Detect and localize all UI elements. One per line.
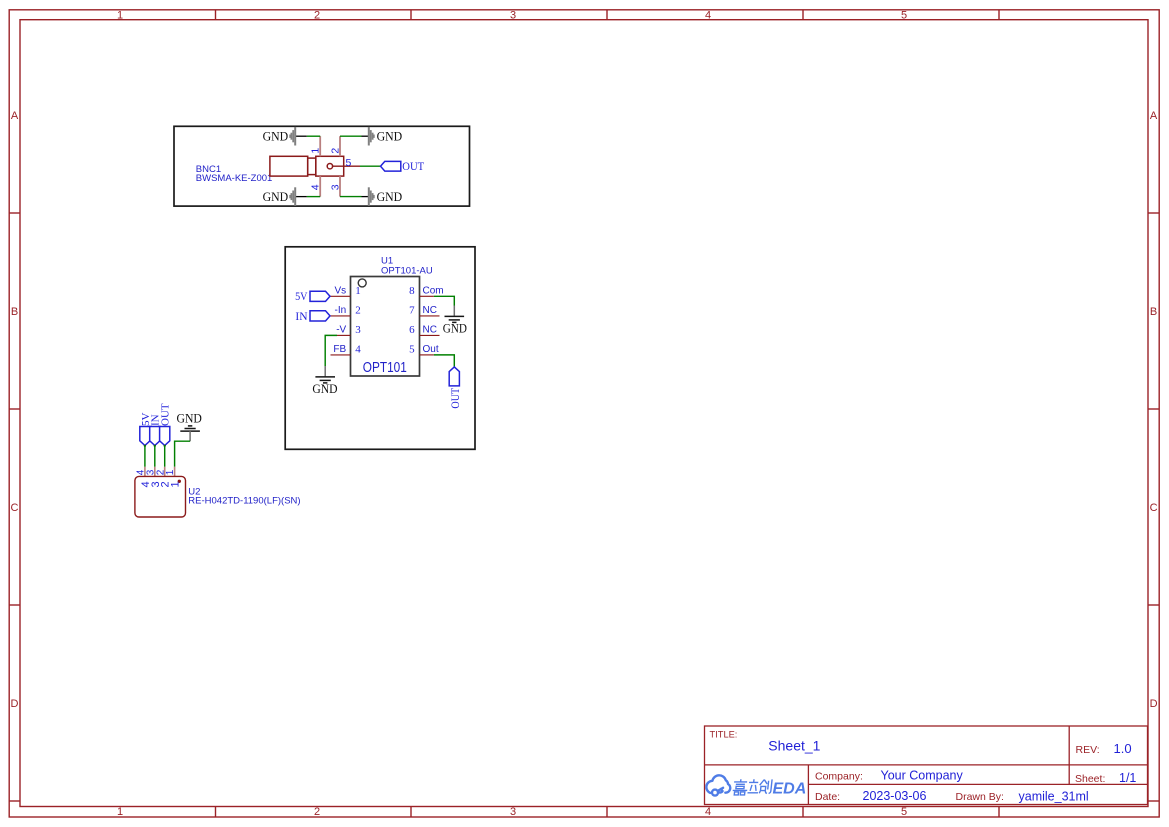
svg-text:EDA: EDA — [773, 780, 807, 797]
svg-text:Your Company: Your Company — [881, 768, 964, 782]
svg-text:Company:: Company: — [815, 771, 863, 783]
svg-text:5: 5 — [346, 157, 352, 169]
svg-text:OPT101: OPT101 — [363, 360, 407, 376]
svg-text:6: 6 — [409, 324, 415, 336]
svg-text:C: C — [1150, 502, 1158, 514]
svg-text:3: 3 — [510, 806, 516, 818]
svg-text:3: 3 — [510, 10, 516, 22]
svg-text:2: 2 — [355, 304, 361, 316]
svg-text:-V: -V — [336, 325, 346, 336]
svg-text:1: 1 — [165, 469, 176, 475]
svg-text:3: 3 — [329, 184, 341, 190]
svg-text:OUT: OUT — [450, 388, 462, 409]
svg-text:4: 4 — [310, 184, 322, 190]
svg-text:GND: GND — [443, 321, 467, 336]
svg-text:4: 4 — [705, 806, 711, 818]
svg-text:7: 7 — [409, 304, 415, 316]
svg-text:NC: NC — [423, 305, 437, 316]
svg-text:1/1: 1/1 — [1119, 771, 1136, 785]
svg-text:GND: GND — [263, 129, 289, 144]
svg-text:5: 5 — [409, 343, 415, 355]
svg-text:GND: GND — [312, 381, 337, 396]
svg-text:5: 5 — [901, 806, 907, 818]
svg-text:B: B — [1150, 306, 1157, 318]
svg-text:1.0: 1.0 — [1114, 741, 1132, 756]
svg-text:3: 3 — [355, 324, 361, 336]
svg-text:C: C — [11, 502, 19, 514]
svg-text:5: 5 — [901, 10, 907, 22]
svg-text:Date:: Date: — [815, 791, 840, 803]
svg-text:Sheet:: Sheet: — [1075, 773, 1105, 785]
svg-text:OPT101-AU: OPT101-AU — [381, 265, 433, 276]
svg-text:Sheet_1: Sheet_1 — [768, 737, 820, 753]
svg-text:OUT: OUT — [160, 403, 172, 426]
svg-text:2: 2 — [329, 148, 341, 154]
svg-text:5V: 5V — [295, 291, 308, 303]
svg-text:OUT: OUT — [402, 161, 424, 173]
svg-text:RE-H042TD-1190(LF)(SN): RE-H042TD-1190(LF)(SN) — [188, 496, 300, 507]
svg-text:A: A — [11, 110, 19, 122]
svg-text:1: 1 — [355, 285, 361, 297]
svg-text:B: B — [11, 306, 18, 318]
svg-text:1: 1 — [310, 148, 322, 154]
svg-text:GND: GND — [377, 129, 403, 144]
svg-text:2: 2 — [314, 806, 320, 818]
svg-text:NC: NC — [423, 325, 437, 336]
svg-text:Out: Out — [423, 344, 439, 355]
svg-text:yamile_31ml: yamile_31ml — [1019, 790, 1089, 804]
svg-text:4: 4 — [355, 343, 361, 355]
svg-text:Com: Com — [423, 285, 444, 296]
svg-text:TITLE:: TITLE: — [710, 730, 738, 740]
svg-text:2: 2 — [314, 10, 320, 22]
svg-text:BWSMA-KE-Z001: BWSMA-KE-Z001 — [196, 173, 273, 184]
svg-text:GND: GND — [377, 189, 403, 204]
svg-text:D: D — [1150, 698, 1158, 710]
svg-text:IN: IN — [295, 311, 308, 323]
svg-text:D: D — [11, 698, 19, 710]
svg-text:REV:: REV: — [1076, 744, 1100, 756]
svg-text:Vs: Vs — [335, 285, 347, 296]
svg-text:8: 8 — [409, 285, 415, 297]
svg-text:Drawn By:: Drawn By: — [956, 791, 1004, 803]
svg-text:1: 1 — [117, 806, 123, 818]
svg-text:GND: GND — [263, 189, 289, 204]
svg-text:GND: GND — [177, 411, 202, 426]
svg-text:2023-03-06: 2023-03-06 — [863, 789, 927, 803]
svg-text:FB: FB — [333, 344, 346, 355]
svg-text:A: A — [1150, 110, 1158, 122]
svg-text:1: 1 — [117, 10, 123, 22]
svg-text:4: 4 — [705, 10, 711, 22]
svg-text:-In: -In — [335, 305, 347, 316]
svg-text:1: 1 — [170, 481, 182, 487]
